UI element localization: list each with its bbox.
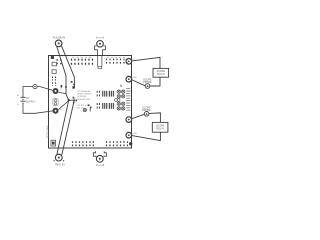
svg-text:DC2012A: DC2012A — [77, 95, 86, 98]
svg-text:VOUT A: VOUT A — [96, 36, 105, 40]
svg-text:−: − — [17, 103, 19, 107]
svg-text:DC2012A-B: DC2012A-B — [47, 125, 50, 138]
svg-text:PROBE: PROBE — [143, 81, 152, 84]
svg-text:E2: E2 — [60, 109, 62, 111]
svg-text:V−: V− — [133, 117, 135, 119]
svg-text:VOUT B: VOUT B — [96, 163, 105, 167]
svg-text:(408)432-1900: (408)432-1900 — [77, 99, 91, 101]
svg-text:x: x — [163, 120, 164, 122]
svg-text:50Ω IN: 50Ω IN — [157, 73, 165, 76]
svg-text:PROBE: PROBE — [142, 109, 151, 112]
svg-text:+: + — [17, 94, 19, 98]
svg-text:TRIG IN: TRIG IN — [55, 163, 65, 167]
svg-text:50Ω IN: 50Ω IN — [156, 128, 164, 131]
svg-text:E1: E1 — [60, 89, 62, 91]
svg-text:GND: GND — [133, 133, 138, 135]
svg-text:SUPPLY: SUPPLY — [26, 99, 36, 103]
svg-text:x: x — [163, 64, 164, 66]
svg-text:PULSE IN: PULSE IN — [53, 35, 65, 39]
svg-text:GND: GND — [133, 77, 138, 79]
